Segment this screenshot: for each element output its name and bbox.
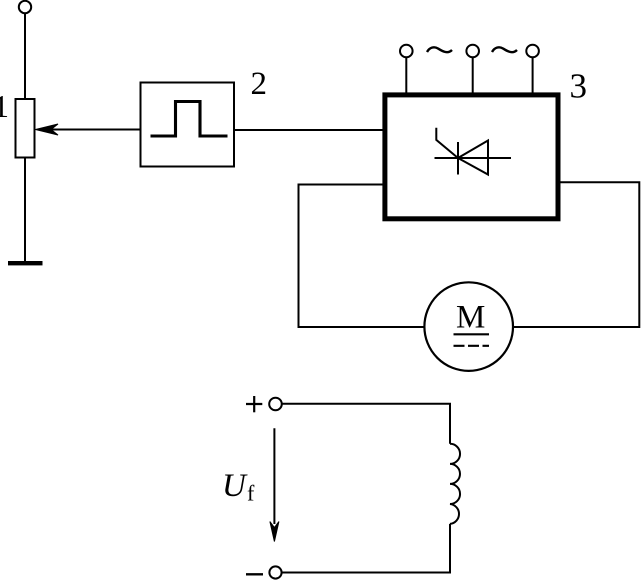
thyristor rectifier block 3 (box)	[385, 95, 558, 219]
wire (block 3 left output to motor, left loop)	[299, 185, 425, 328]
field winding Lf (inductor coil)	[450, 444, 460, 524]
AC terminal c (circle + stem)	[526, 45, 539, 95]
svg-text:1: 1	[0, 88, 9, 124]
tilde ~ (phase a-b)	[427, 47, 452, 52]
tilde ~ (phase b-c)	[492, 47, 517, 52]
svg-text:U: U	[222, 468, 248, 504]
wire (plus terminal to field winding, top run)	[282, 404, 450, 444]
label 1	[0, 88, 9, 124]
wire (potentiometer bottom to ground)	[24, 158, 26, 262]
voltage arrow Uf (downward)	[270, 428, 279, 541]
wire (field winding to minus terminal, bottom run)	[282, 524, 450, 573]
svg-text:3: 3	[570, 67, 588, 106]
potentiometer R1 body	[16, 99, 35, 158]
svg-text:2: 2	[251, 66, 268, 102]
svg-text:M: M	[456, 300, 485, 336]
label 2	[251, 66, 268, 102]
wire (block 2 to block 3)	[234, 129, 384, 131]
ground	[8, 261, 43, 265]
thyristor symbol (inside block 3)	[435, 128, 512, 175]
AC terminal b (circle + stem)	[466, 45, 479, 95]
pulse generator block 2 (box)	[141, 83, 235, 167]
plus terminal (+ and circle)	[246, 396, 282, 412]
label 3	[570, 67, 588, 106]
wire (block 3 right output to motor, right loop)	[513, 182, 639, 327]
minus terminal (- and circle)	[246, 566, 282, 578]
AC terminal a (circle + stem)	[400, 45, 413, 95]
svg-text:f: f	[247, 481, 255, 506]
wiper arrow (into potentiometer)	[36, 124, 59, 135]
motor M (armature circle)	[424, 282, 513, 371]
pulse waveform (inside block 2)	[151, 102, 228, 137]
terminal circle (potentiometer top input)	[19, 1, 31, 13]
wire (wiper to block 2)	[50, 129, 141, 131]
label Uf	[222, 468, 255, 506]
wire (terminal to potentiometer body)	[24, 13, 26, 99]
